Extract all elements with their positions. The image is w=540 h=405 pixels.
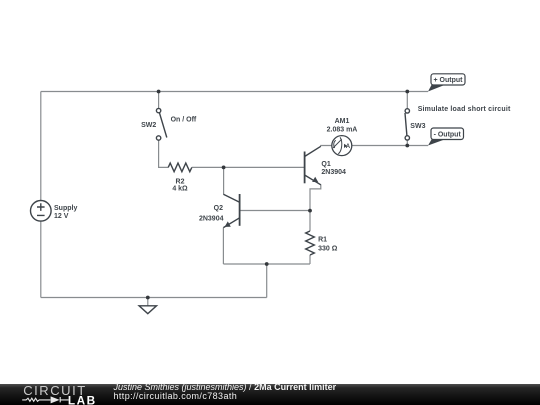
svg-text:2N3904: 2N3904 [321, 169, 346, 176]
svg-text:2.083 mA: 2.083 mA [327, 127, 358, 134]
svg-text:SW2: SW2 [141, 122, 156, 129]
svg-text:12 V: 12 V [54, 213, 69, 220]
svg-text:AM1: AM1 [335, 118, 350, 125]
svg-text:330 Ω: 330 Ω [318, 245, 338, 252]
svg-text:A: A [346, 144, 351, 150]
svg-text:4 kΩ: 4 kΩ [172, 186, 188, 193]
svg-text:Q1: Q1 [321, 161, 330, 168]
svg-text:Simulate load short circuit: Simulate load short circuit [418, 106, 511, 113]
svg-text:+ Output: + Output [434, 77, 464, 84]
svg-text:SW3: SW3 [410, 123, 425, 130]
svg-text:2N3904: 2N3904 [199, 216, 224, 223]
svg-text:R2: R2 [176, 178, 185, 185]
svg-text:LAB: LAB [68, 393, 97, 405]
svg-text:R1: R1 [318, 236, 327, 243]
svg-text:Q2: Q2 [214, 205, 223, 212]
svg-text:On / Off: On / Off [171, 117, 197, 124]
svg-text:Supply: Supply [54, 205, 77, 212]
svg-text:- Output: - Output [434, 132, 462, 139]
